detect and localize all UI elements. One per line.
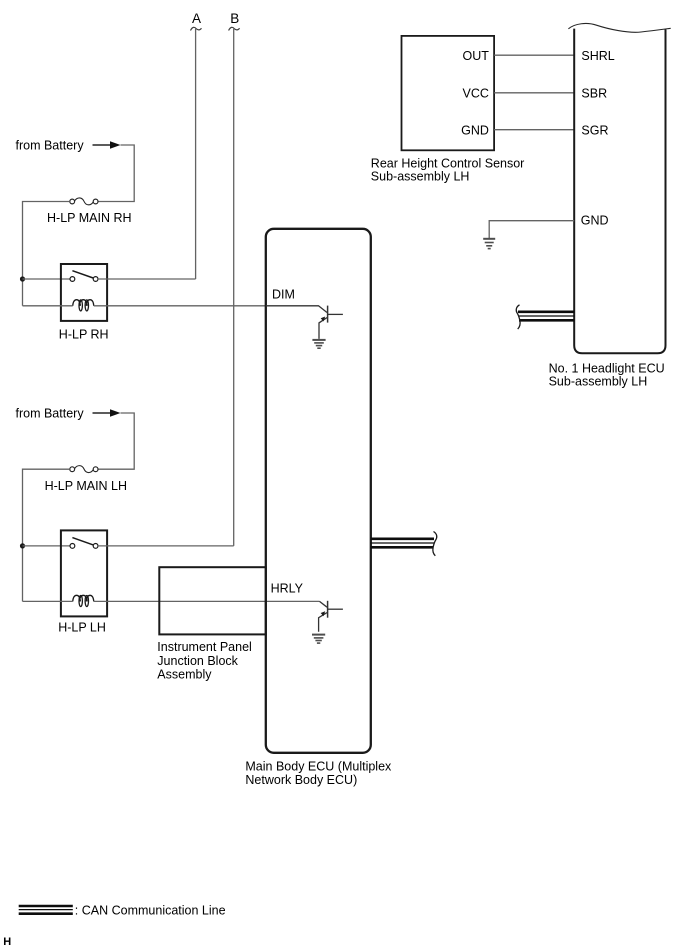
junction dot (RH rail) (20, 276, 25, 281)
svg-text:GND: GND (461, 123, 489, 137)
svg-text:No. 1 Headlight ECU: No. 1 Headlight ECU (549, 361, 665, 375)
wire B vertical (233, 29, 235, 546)
transistor Q2 (HRLY output) (319, 601, 343, 632)
wire DIM net: rail to coil (23, 305, 73, 307)
svg-text:from Battery: from Battery (16, 407, 85, 421)
wire break at A (191, 27, 202, 30)
relay H-LP LH (61, 530, 107, 616)
wire rail to relay switch (LH) (23, 545, 71, 547)
Main Body ECU box (266, 229, 371, 753)
label Main Body ECU (245, 759, 392, 787)
svg-text:OUT: OUT (463, 49, 490, 63)
svg-text:H-LP MAIN LH: H-LP MAIN LH (45, 479, 127, 493)
svg-text:: CAN Communication Line: : CAN Communication Line (75, 904, 226, 918)
wire from arrow to fuse (RH feed) (98, 145, 134, 202)
svg-text:H: H (3, 936, 11, 948)
transistor Q1 (DIM output) (266, 306, 343, 339)
svg-text:H-LP LH: H-LP LH (58, 620, 106, 634)
wire HRLY net: rail to coil (23, 600, 73, 602)
svg-text:SHRL: SHRL (581, 49, 614, 63)
svg-text:Rear Height Control Sensor: Rear Height Control Sensor (371, 156, 525, 170)
wire relay switch to node A (98, 278, 196, 280)
label Instrument Panel Junction Block Assembly (157, 640, 252, 682)
wire fuse to left rail (RH) (23, 202, 70, 306)
svg-text:Sub-assembly LH: Sub-assembly LH (371, 170, 470, 184)
wire HRLY net: relay coil through junction block to ECU (94, 600, 320, 602)
svg-text:HRLY: HRLY (271, 582, 304, 596)
ground G3 (483, 239, 495, 249)
wire A vertical (195, 29, 197, 279)
svg-text:A: A (192, 11, 201, 26)
wire GND to SGR (494, 129, 574, 131)
junction dot (LH rail) (20, 543, 25, 548)
No.1 Headlight ECU box (568, 23, 670, 353)
node A (192, 11, 201, 26)
wire from arrow to fuse (LH feed) (98, 413, 134, 469)
label Rear Height Control Sensor (371, 156, 525, 183)
svg-text:B: B (230, 11, 239, 26)
relay H-LP RH (61, 264, 107, 321)
legend CAN communication line symbol (19, 906, 73, 914)
svg-text:Assembly: Assembly (157, 668, 212, 682)
node B (230, 11, 239, 26)
arrow (RH feed) (93, 141, 121, 149)
svg-text:Instrument Panel: Instrument Panel (157, 640, 252, 654)
fuse H-LP MAIN LH (70, 466, 98, 473)
wire fuse to left rail (LH) (23, 469, 70, 601)
svg-text:from Battery: from Battery (16, 139, 85, 153)
wire DIM net: relay coil to ECU (94, 305, 266, 307)
fuse H-LP MAIN RH (70, 198, 98, 205)
ground G2 (312, 635, 325, 644)
svg-text:Junction Block: Junction Block (157, 654, 238, 668)
Rear Height Control Sensor box (402, 36, 495, 150)
CAN stub on Main Body ECU (371, 532, 437, 556)
svg-text:DIM: DIM (272, 287, 295, 301)
svg-text:H-LP MAIN RH: H-LP MAIN RH (47, 211, 132, 225)
svg-text:SBR: SBR (581, 87, 607, 101)
svg-text:H-LP RH: H-LP RH (59, 328, 109, 342)
svg-text:Sub-assembly LH: Sub-assembly LH (549, 375, 648, 389)
wire relay switch to node B (98, 545, 234, 547)
svg-text:VCC: VCC (462, 87, 488, 101)
svg-text:Network Body ECU): Network Body ECU) (245, 773, 357, 787)
wire OUT to SHRL (494, 54, 574, 56)
wire rail to relay switch (RH) (23, 278, 71, 280)
wire break at B (229, 27, 240, 30)
svg-text:Main Body ECU (Multiplex: Main Body ECU (Multiplex (245, 759, 392, 773)
CAN stub on headlight ECU (516, 305, 574, 329)
svg-text:SGR: SGR (581, 123, 608, 137)
Instrument Panel Junction Block Assembly box (159, 567, 265, 634)
label No. 1 Headlight ECU (549, 361, 665, 388)
arrow (LH feed) (93, 409, 121, 417)
ground G1 (312, 340, 325, 348)
wire VCC to SBR (494, 92, 574, 94)
svg-text:GND: GND (581, 214, 609, 228)
wire GND to ground (489, 221, 574, 239)
